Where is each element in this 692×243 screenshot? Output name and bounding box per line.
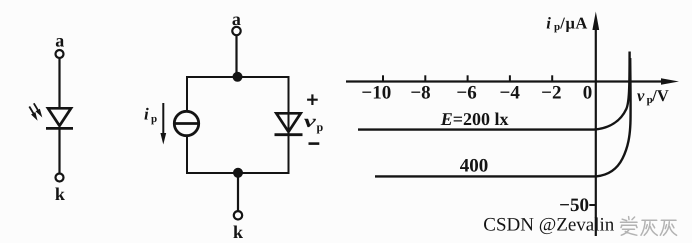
terminal circle k (equivalent circuit) — [234, 211, 242, 219]
tick -8 — [424, 75, 426, 81]
photodiode D1 cathode terminal circle — [56, 174, 64, 182]
curve E=400lx — [375, 58, 631, 176]
terminal circle a (equivalent circuit) — [232, 27, 240, 35]
y axis ip/uA — [592, 12, 599, 237]
svg-text:/μA: /μA — [559, 13, 588, 32]
diode D2 cathode bar — [275, 133, 303, 136]
svg-text:v: v — [304, 111, 318, 131]
watermark glyph hui1 — [641, 220, 657, 235]
svg-text:0: 0 — [583, 83, 593, 104]
tick -4 — [509, 75, 511, 81]
x axis title vp/V — [637, 86, 669, 106]
x axis vp/V — [346, 78, 679, 85]
svg-text:v: v — [637, 86, 645, 105]
photodiode D1 cathode bar — [46, 127, 73, 130]
plus sign of vp — [307, 94, 318, 105]
svg-text:i: i — [144, 105, 149, 124]
watermark glyph hui2 — [660, 220, 676, 235]
svg-text:p: p — [317, 120, 324, 134]
tick -50 on y axis — [589, 204, 596, 206]
svg-text:E: E — [440, 109, 453, 129]
svg-text:k: k — [233, 222, 243, 242]
wire anode to diode — [58, 58, 60, 108]
photodiode D1 anode terminal circle — [56, 50, 64, 58]
svg-text:=200 lx: =200 lx — [453, 109, 509, 129]
svg-text:p: p — [151, 113, 157, 125]
circuit loop rectangle wires — [187, 77, 289, 173]
curve label E=200 lx — [440, 109, 509, 129]
tick -6 — [467, 75, 469, 81]
svg-text:/V: /V — [651, 86, 669, 105]
wire terminal a to top rail — [235, 35, 237, 77]
tick -2 — [551, 75, 553, 81]
watermark glyph ai — [621, 217, 638, 236]
svg-text:−8: −8 — [410, 82, 430, 103]
diode D2 triangle (equivalent circuit) — [276, 113, 300, 132]
svg-text:−50: −50 — [559, 195, 589, 216]
svg-text:i: i — [546, 13, 551, 32]
light arrow 2 into photodiode — [34, 103, 43, 117]
svg-text:−4: −4 — [500, 82, 521, 103]
light arrow 1 into photodiode — [29, 107, 37, 121]
svg-text:−10: −10 — [361, 82, 391, 103]
svg-text:400: 400 — [460, 156, 489, 177]
current ip arrow — [160, 103, 166, 145]
minus sign of vp — [309, 142, 320, 145]
current source I1 circle — [174, 111, 198, 135]
svg-text:k: k — [55, 184, 65, 204]
junction dot top — [233, 72, 243, 82]
svg-text:p: p — [554, 21, 560, 33]
junction dot bottom — [233, 168, 243, 178]
current source I1 bar — [174, 122, 198, 125]
svg-text:−2: −2 — [541, 82, 561, 103]
tick -10 — [382, 75, 384, 81]
y axis title ip/uA — [546, 13, 588, 33]
photodiode D1 triangle — [48, 108, 71, 126]
svg-text:CSDN @Zevalin: CSDN @Zevalin — [483, 215, 614, 236]
curve E=200lx — [358, 52, 630, 130]
svg-text:a: a — [55, 30, 64, 50]
wire diode to cathode — [58, 128, 60, 173]
svg-text:−6: −6 — [456, 82, 476, 103]
wire bottom rail to terminal k — [237, 173, 239, 211]
